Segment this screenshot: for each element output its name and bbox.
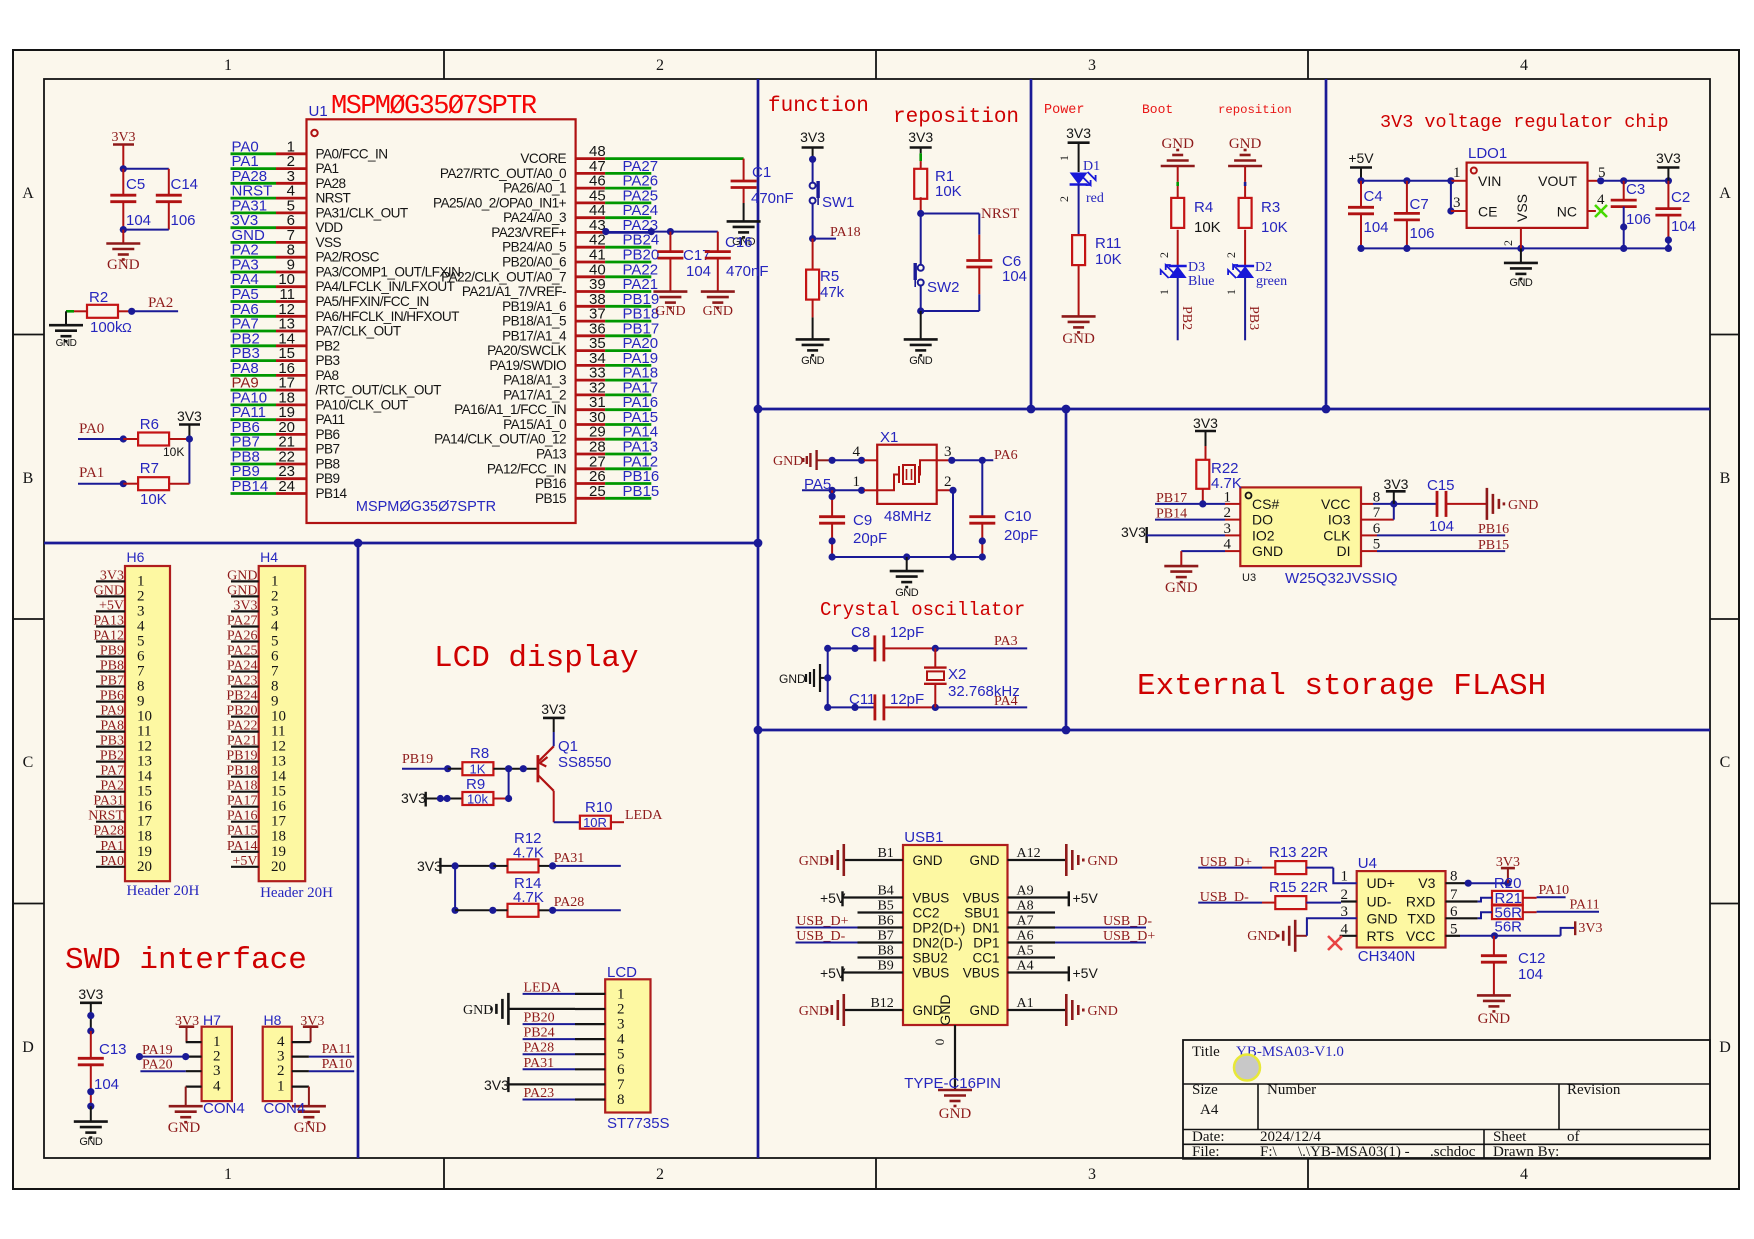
svg-text:PA13: PA13 — [93, 614, 124, 629]
svg-text:C13: C13 — [99, 1041, 127, 1058]
svg-text:of: of — [1567, 1129, 1580, 1145]
section divider vertical V3 — [1325, 79, 1328, 409]
svg-text:PA27: PA27 — [227, 614, 258, 629]
U1 pin 4 NRST — [231, 197, 277, 200]
LCD pin 8 — [575, 1098, 605, 1100]
svg-text:function: function — [768, 95, 869, 118]
svg-text:A1: A1 — [1017, 996, 1034, 1011]
svg-text:GND: GND — [799, 854, 829, 869]
svg-text:20: 20 — [137, 859, 152, 875]
svg-text:SW1: SW1 — [822, 194, 855, 211]
svg-text:4: 4 — [137, 619, 145, 635]
U1 pin 15 PB3 — [231, 359, 277, 362]
H4 pin 14 PB18 — [231, 776, 259, 778]
svg-text:1: 1 — [1157, 289, 1171, 295]
vertical 3V3 to R14 — [454, 866, 456, 910]
transistor Q1 SS8550 — [537, 755, 540, 782]
chip U4 CH340N body — [1357, 871, 1446, 947]
svg-text:8: 8 — [271, 679, 279, 695]
svg-text:10R: 10R — [583, 815, 607, 830]
svg-text:GND: GND — [1478, 1011, 1511, 1027]
svg-text:PA7/CLK_OUT: PA7/CLK_OUT — [316, 324, 401, 339]
svg-text:reposition: reposition — [893, 106, 1019, 129]
svg-text:48MHz: 48MHz — [884, 508, 932, 525]
H4 pin 9 PB24 — [231, 700, 259, 702]
svg-text:PA0: PA0 — [79, 421, 104, 437]
svg-text:A5: A5 — [1017, 944, 1034, 959]
svg-text:GND: GND — [895, 587, 919, 599]
svg-text:19: 19 — [271, 844, 286, 860]
svg-text:GND: GND — [937, 994, 953, 1025]
stub A5 — [1008, 956, 1056, 958]
H6 pin 18 PA28 — [96, 836, 125, 838]
svg-text:PB7: PB7 — [316, 442, 340, 457]
svg-text:GND: GND — [939, 1106, 972, 1122]
svg-text:R6: R6 — [140, 416, 159, 433]
svg-text:PA15/A1_0: PA15/A1_0 — [503, 417, 567, 432]
svg-text:PA16/A1_1/FCC_IN: PA16/A1_1/FCC_IN — [454, 402, 566, 417]
svg-text:GND: GND — [79, 1136, 103, 1148]
svg-text:B12: B12 — [870, 996, 893, 1011]
svg-text:B: B — [23, 470, 34, 487]
svg-text:7: 7 — [137, 664, 145, 680]
H7 pin 1 — [186, 1041, 202, 1043]
svg-text:GND: GND — [1247, 929, 1277, 944]
svg-text:MSPMØG35Ø7SPTR: MSPMØG35Ø7SPTR — [331, 92, 537, 122]
svg-text:3V3: 3V3 — [78, 986, 103, 1002]
U1 pin 43 PA23/VREF+ — [576, 231, 606, 234]
svg-text:Title: Title — [1192, 1044, 1220, 1060]
svg-text:3V3: 3V3 — [417, 858, 442, 874]
svg-text:1: 1 — [617, 986, 625, 1002]
node below R1 / NRST — [917, 210, 924, 217]
U1 pin 24 PB14 — [231, 492, 277, 495]
wire R13 to UD+ — [1333, 868, 1356, 884]
H7 pin 2 — [186, 1055, 202, 1057]
capacitor C5 — [122, 169, 124, 195]
svg-text:PA18/A1_3: PA18/A1_3 — [503, 373, 566, 388]
svg-text:PA1: PA1 — [100, 839, 124, 854]
svg-text:4: 4 — [1520, 1166, 1528, 1183]
U1 pin 33 PA18/A1_3 — [576, 379, 606, 382]
svg-text:\.\YB-MSA03(1) -: \.\YB-MSA03(1) - — [1298, 1144, 1410, 1160]
svg-text:H6: H6 — [127, 549, 145, 565]
wire PB2 — [1177, 278, 1179, 340]
svg-text:PB16: PB16 — [535, 476, 566, 491]
svg-text:PA8: PA8 — [316, 368, 339, 383]
svg-text:3V3: 3V3 — [484, 1077, 509, 1093]
svg-text:PB8: PB8 — [100, 659, 124, 674]
svg-text:3V3: 3V3 — [1066, 125, 1091, 141]
svg-text:104: 104 — [1364, 219, 1389, 236]
logo circle — [1234, 1055, 1260, 1081]
svg-text:Q1: Q1 — [558, 738, 578, 755]
svg-text:1: 1 — [137, 573, 145, 589]
USB connector USB1 body — [903, 845, 1008, 1025]
X1 pin3 wire PA6 — [937, 459, 952, 461]
svg-text:X1: X1 — [880, 429, 898, 446]
svg-text:2: 2 — [1224, 252, 1238, 258]
svg-text:4: 4 — [617, 1032, 625, 1048]
svg-text:104: 104 — [1002, 268, 1027, 285]
bottom rail VSS — [1361, 247, 1668, 249]
svg-text:3V3: 3V3 — [111, 130, 135, 145]
H6 pin 17 NRST — [96, 821, 125, 823]
svg-text:GND: GND — [1165, 580, 1198, 596]
svg-text:1: 1 — [1057, 155, 1071, 161]
svg-text:PA6/HFCLK_IN/HFXOUT: PA6/HFCLK_IN/HFXOUT — [316, 309, 460, 324]
svg-text:470nF: 470nF — [751, 190, 794, 207]
LCD pin 4 — [575, 1038, 605, 1040]
LDO chip LD01 body — [1467, 163, 1588, 228]
svg-text:D3: D3 — [1188, 260, 1205, 275]
svg-text:A4: A4 — [1200, 1102, 1219, 1118]
U1 pin 44 PA24/A0_3 — [576, 216, 606, 219]
svg-text:6: 6 — [271, 649, 279, 665]
svg-text:PA20/SWCLK: PA20/SWCLK — [487, 343, 566, 358]
svg-text:3: 3 — [213, 1063, 221, 1079]
svg-text:SBU1: SBU1 — [964, 906, 999, 921]
svg-text:B9: B9 — [877, 959, 893, 974]
svg-text:RTS: RTS — [1367, 928, 1395, 944]
svg-text:GND: GND — [1367, 910, 1398, 926]
U1 pin 21 PB7 — [231, 448, 277, 451]
U1 pin 3 PA28 — [231, 182, 277, 185]
svg-text:Header 20H: Header 20H — [260, 885, 333, 901]
svg-text:A12: A12 — [1017, 846, 1041, 861]
svg-text:20pF: 20pF — [1004, 527, 1038, 544]
svg-text:B: B — [1720, 470, 1731, 487]
svg-text:PA25/A0_2/OPA0_IN1+: PA25/A0_2/OPA0_IN1+ — [433, 195, 567, 210]
svg-text:C10: C10 — [1004, 508, 1032, 525]
H6 pin 19 PA1 — [96, 851, 125, 853]
svg-text:PA0/FCC_IN: PA0/FCC_IN — [316, 146, 388, 161]
3V3 bar H7 — [179, 1025, 194, 1028]
svg-text:reposition: reposition — [1218, 103, 1292, 117]
svg-text:A9: A9 — [1017, 884, 1034, 899]
svg-text:10K: 10K — [163, 445, 184, 459]
resistor R1 10K — [914, 169, 927, 199]
svg-text:PB14: PB14 — [232, 478, 269, 495]
svg-text:24: 24 — [278, 478, 295, 495]
svg-text:MSPMØG35Ø7SPTR: MSPMØG35Ø7SPTR — [356, 499, 496, 515]
svg-text:SS8550: SS8550 — [558, 754, 611, 771]
sideways ground flash C15 — [1486, 488, 1489, 520]
H8 pin 2 — [292, 1070, 309, 1072]
svg-text:12: 12 — [137, 739, 152, 755]
svg-text:PA25: PA25 — [227, 644, 258, 659]
resistor R5 47k — [812, 239, 814, 270]
svg-text:3: 3 — [617, 1017, 625, 1033]
svg-text:GND: GND — [463, 1003, 493, 1018]
svg-text:IO3: IO3 — [1328, 512, 1351, 528]
wire gnd to X1 pin4 — [829, 459, 864, 461]
wire B12 to ground — [844, 1009, 903, 1011]
svg-text:H8: H8 — [264, 1012, 282, 1028]
svg-text:PA1: PA1 — [79, 465, 104, 481]
svg-text:Blue: Blue — [1188, 274, 1214, 289]
svg-text:/RTC_OUT/CLK_OUT: /RTC_OUT/CLK_OUT — [316, 383, 442, 398]
H4 pin 8 PA23 — [231, 685, 259, 687]
svg-text:15: 15 — [137, 784, 152, 800]
svg-text:PB17/A1_4: PB17/A1_4 — [502, 328, 567, 343]
svg-text:red: red — [1086, 191, 1104, 206]
svg-text:18: 18 — [137, 829, 152, 845]
U1 pin 41 PB20/A0_6 — [576, 261, 606, 264]
H4 pin 20 +5V — [231, 866, 259, 868]
ground left of R2 — [65, 311, 67, 325]
svg-text:B5: B5 — [877, 899, 893, 914]
node above SW1 — [809, 156, 816, 163]
svg-text:PB3: PB3 — [1246, 306, 1261, 330]
svg-text:A4: A4 — [1017, 959, 1034, 974]
svg-text:CC2: CC2 — [913, 906, 940, 921]
svg-text:0: 0 — [932, 1039, 947, 1046]
svg-text:25: 25 — [589, 483, 606, 500]
svg-text:GND: GND — [1252, 543, 1283, 559]
svg-text:PB6: PB6 — [100, 689, 124, 704]
U1 pin 1 PA0/FCC_IN — [231, 152, 277, 155]
svg-text:GND: GND — [1508, 498, 1538, 513]
wire B1 to ground — [844, 859, 903, 861]
svg-text:X2: X2 — [948, 666, 966, 683]
svg-text:PB7: PB7 — [100, 674, 124, 689]
svg-text:47k: 47k — [820, 284, 845, 301]
wire A1 to ground — [1008, 1009, 1067, 1011]
pin4 RTS no-connect — [1340, 935, 1357, 937]
svg-text:1: 1 — [224, 57, 232, 74]
svg-text:DP1: DP1 — [973, 936, 999, 951]
svg-text:R9: R9 — [466, 776, 485, 793]
svg-text:R2: R2 — [89, 289, 108, 306]
stub B8 — [858, 956, 904, 958]
U1 pin 5 PA31/CLK_OUT — [231, 211, 277, 214]
U1 pin 6 VDD — [231, 226, 277, 229]
svg-text:4: 4 — [853, 444, 861, 460]
sideways ground CH340 GND pin — [1294, 920, 1297, 952]
header H6 body — [125, 566, 170, 881]
LCD pin 5 — [575, 1053, 605, 1055]
wire C5-C14 bottom — [120, 226, 127, 233]
svg-text:A8: A8 — [1017, 899, 1034, 914]
switch SW2 — [918, 265, 924, 271]
svg-text:1: 1 — [224, 1166, 232, 1183]
svg-text:CON4: CON4 — [264, 1100, 306, 1117]
svg-text:PA14: PA14 — [227, 839, 258, 854]
ground for C16 — [701, 290, 735, 293]
wire A12 to ground — [1008, 859, 1067, 861]
svg-text:Revision: Revision — [1567, 1082, 1621, 1098]
svg-text:2: 2 — [1501, 240, 1515, 246]
svg-text:R7: R7 — [140, 460, 159, 477]
svg-text:C4: C4 — [1364, 188, 1383, 205]
svg-text:PA27/RTC_OUT/A0_0: PA27/RTC_OUT/A0_0 — [440, 166, 567, 181]
U1 pin 42 PB24/A0_5 — [576, 246, 606, 249]
U1 pin 16 PA8 — [231, 374, 277, 377]
X1 pin2 wire — [937, 489, 953, 491]
svg-text:3V3: 3V3 — [1656, 150, 1681, 166]
svg-text:DP2(D+): DP2(D+) — [913, 921, 966, 936]
U1 pin 45 PA25/A0_2/OPA0_IN1+ — [576, 201, 606, 204]
wire PB3 — [1244, 278, 1246, 340]
node 3V3/C5/C14 — [120, 165, 127, 172]
svg-text:3V3: 3V3 — [1384, 476, 1409, 492]
pin6 TXD wire to R21 — [1446, 917, 1478, 919]
svg-text:PA3/COMP1_OUT/LFXIN: PA3/COMP1_OUT/LFXIN — [316, 265, 461, 280]
crystal X1 inner symbol — [903, 465, 915, 484]
U1 pin 9 PA3/COMP1_OUT/LFXIN — [231, 271, 277, 274]
svg-text:PA31/CLK_OUT: PA31/CLK_OUT — [316, 205, 408, 220]
svg-text:1: 1 — [271, 573, 279, 589]
svg-text:PA28: PA28 — [554, 895, 585, 910]
svg-text:VSS: VSS — [316, 235, 342, 250]
MCU U1 MSPM0G3507SPTR body — [307, 119, 576, 523]
svg-text:+5V: +5V — [1348, 150, 1374, 166]
svg-text:B4: B4 — [877, 884, 893, 899]
wire SW2 top — [920, 214, 922, 265]
svg-text:PA15: PA15 — [227, 824, 258, 839]
svg-text:B7: B7 — [877, 929, 893, 944]
capacitor C16 — [705, 250, 731, 253]
H4 pin 16 PA17 — [231, 806, 259, 808]
svg-text:5: 5 — [617, 1047, 625, 1063]
svg-text:PA3: PA3 — [994, 634, 1018, 649]
U1 pin 7 VSS — [231, 241, 277, 244]
svg-text:F:\: F:\ — [1260, 1144, 1278, 1160]
svg-text:D2: D2 — [1255, 260, 1272, 275]
svg-text:SWD interface: SWD interface — [65, 943, 307, 978]
svg-text:12pF: 12pF — [890, 624, 924, 641]
H6 pin 13 PB2 — [96, 760, 125, 762]
svg-text:15: 15 — [271, 784, 286, 800]
svg-text:PA19/SWDIO: PA19/SWDIO — [489, 358, 566, 373]
H4 pin 3 3V3 — [231, 610, 259, 612]
svg-text:3V3: 3V3 — [1578, 921, 1602, 936]
svg-text:GND: GND — [56, 338, 77, 349]
wire VCORE pin48 to C1 — [605, 157, 744, 160]
svg-text:+5V: +5V — [232, 854, 257, 869]
svg-text:3V3: 3V3 — [1121, 524, 1146, 540]
svg-text:CS#: CS# — [1252, 496, 1279, 512]
H6 pin 9 PB6 — [96, 700, 125, 702]
svg-text:2024/12/4: 2024/12/4 — [1260, 1129, 1321, 1145]
svg-text:PA12: PA12 — [93, 629, 124, 644]
svg-text:PA26: PA26 — [227, 629, 258, 644]
svg-text:104: 104 — [126, 212, 151, 229]
section divider horizontal H3 — [758, 729, 1710, 732]
connector H8 body — [263, 1027, 292, 1101]
U1 pin 18 PA10/CLK_OUT — [231, 403, 277, 406]
resistor R11 10K — [1072, 235, 1085, 265]
svg-text:Drawn By:: Drawn By: — [1493, 1144, 1559, 1160]
LCD connector body — [605, 979, 650, 1112]
H4 pin 11 PA22 — [231, 730, 259, 732]
svg-text:16: 16 — [137, 799, 153, 815]
svg-text:GND: GND — [168, 1120, 201, 1136]
svg-text:3: 3 — [1088, 57, 1096, 74]
capacitor C6 — [966, 259, 992, 262]
svg-text:CON4: CON4 — [203, 1100, 245, 1117]
capacitor C13 104 — [90, 1031, 92, 1058]
svg-text:PA28: PA28 — [316, 176, 346, 191]
svg-text:SBU2: SBU2 — [913, 951, 948, 966]
svg-text:PA2: PA2 — [148, 295, 173, 311]
svg-text:PB19: PB19 — [226, 749, 257, 764]
svg-text:NC: NC — [1557, 204, 1577, 220]
ground below C5 — [106, 242, 140, 245]
svg-text:470nF: 470nF — [726, 263, 769, 280]
svg-text:B6: B6 — [877, 914, 893, 929]
svg-text:10k: 10k — [467, 792, 488, 807]
svg-text:H4: H4 — [260, 549, 278, 565]
svg-text:U1: U1 — [309, 103, 328, 120]
section divider vertical V1 — [757, 79, 760, 1158]
svg-text:9: 9 — [137, 694, 145, 710]
svg-text:PB19/A1_6: PB19/A1_6 — [502, 299, 566, 314]
svg-text:10K: 10K — [1095, 251, 1122, 268]
svg-text:R15 22R: R15 22R — [1269, 879, 1328, 896]
svg-text:CE: CE — [1478, 204, 1497, 220]
svg-text:104: 104 — [686, 263, 711, 280]
svg-text:106: 106 — [1626, 211, 1651, 228]
svg-text:NRST: NRST — [316, 191, 351, 206]
U1 pin 34 PA19/SWDIO — [576, 364, 606, 367]
USB1 shield pin 0 wire — [954, 1025, 956, 1090]
H6 pin 15 PA2 — [96, 791, 125, 793]
H6 pin 3 +5V — [96, 610, 125, 612]
svg-text:DN2(D-): DN2(D-) — [913, 936, 963, 951]
svg-text:V3: V3 — [1418, 875, 1435, 891]
ground for C1 — [727, 220, 761, 223]
pin5 VOUT wire to 3V3 — [1588, 180, 1601, 182]
capacitor C2 104 — [1667, 181, 1669, 209]
svg-text:GND: GND — [1088, 854, 1118, 869]
svg-text:PA11: PA11 — [1570, 898, 1600, 913]
svg-text:PA28: PA28 — [93, 824, 124, 839]
svg-text:IO2: IO2 — [1252, 527, 1275, 543]
svg-text:USB1: USB1 — [904, 829, 943, 846]
capacitor C9 20pF — [831, 490, 833, 516]
svg-text:7: 7 — [271, 664, 279, 680]
svg-text:C8: C8 — [851, 624, 870, 641]
svg-text:A7: A7 — [1017, 914, 1034, 929]
svg-text:2: 2 — [277, 1063, 285, 1079]
svg-text:104: 104 — [1671, 218, 1696, 235]
U1 pin 10 PA4/LFCLK_IN/LFXOUT — [231, 285, 277, 288]
section divider vertical V5 — [357, 543, 360, 1158]
svg-text:VBUS: VBUS — [913, 966, 950, 981]
U1 pin 12 PA6/HFCLK_IN/HFXOUT — [231, 315, 277, 318]
zone ticks left/right — [13, 334, 44, 336]
svg-text:6: 6 — [617, 1062, 625, 1078]
svg-text:C9: C9 — [853, 512, 872, 529]
wire R8/R9 join — [508, 769, 510, 799]
svg-text:PB24: PB24 — [226, 689, 257, 704]
pin5 VCC wire to 3V3 and C12 — [1446, 935, 1461, 937]
H6 pin 14 PA7 — [96, 776, 125, 778]
svg-text:56R: 56R — [1495, 919, 1523, 936]
ground H7 pin4 — [185, 1087, 187, 1107]
capacitor C14 — [156, 194, 182, 197]
H6 pin 7 PB8 — [96, 670, 125, 672]
svg-text:GND: GND — [909, 355, 933, 367]
H4 pin 15 PA18 — [231, 791, 259, 793]
svg-text:PA31: PA31 — [93, 794, 124, 809]
svg-text:3V3: 3V3 — [541, 701, 566, 717]
H6 pin 8 PB7 — [96, 685, 125, 687]
svg-text:CLK: CLK — [1323, 527, 1351, 543]
svg-text:11: 11 — [271, 724, 285, 740]
